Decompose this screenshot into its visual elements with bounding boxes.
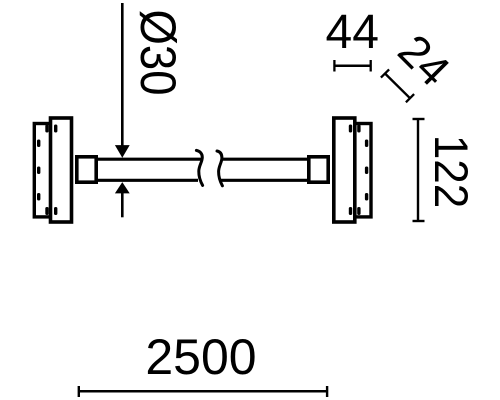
- tube left segment top line: [96, 158, 201, 161]
- left bracket front plate slot bottom: [54, 207, 57, 215]
- tube right segment bottom line: [220, 179, 308, 182]
- svg-text:Ø30: Ø30: [129, 10, 184, 96]
- dimension Ø30 down arrow: [115, 145, 130, 158]
- left bracket back plate slot bottom: [37, 193, 40, 201]
- break line right: [217, 151, 222, 186]
- right bracket front plate slot bottom: [349, 207, 352, 215]
- dimension Ø30 leader line (bottom): [121, 192, 124, 217]
- svg-text:2500: 2500: [145, 329, 256, 385]
- tube left segment bottom line: [96, 179, 198, 182]
- left bracket front plate slot top: [54, 125, 57, 133]
- break line left: [196, 150, 202, 185]
- left bracket back plate slot middle: [37, 167, 40, 175]
- right bracket front plate slot top: [349, 125, 352, 133]
- right bracket back plate slot top: [365, 140, 368, 148]
- dimension 2500 right tick: [326, 386, 328, 397]
- dimension 24 line (diagonal): [385, 74, 410, 99]
- dimension 24 lower tick: [406, 94, 414, 102]
- svg-text:122: 122: [425, 135, 478, 208]
- dimension 44 line: [334, 65, 370, 68]
- dimension 24 upper tick: [381, 69, 389, 77]
- dimension 122 line: [417, 119, 419, 221]
- right bracket back plate seam slot top: [357, 125, 360, 133]
- right bracket back plate seam slot bottom: [357, 207, 360, 215]
- left bracket back plate: [34, 124, 54, 217]
- dimension 2500 left tick: [78, 386, 80, 397]
- left bracket back plate seam slot top: [45, 125, 48, 133]
- right bracket back plate slot middle: [365, 167, 368, 175]
- tube right segment top line: [222, 158, 309, 161]
- dimension Ø30 leader line (top): [121, 3, 124, 148]
- dimension Ø30 up arrow: [115, 182, 130, 193]
- left bracket front plate: [51, 118, 72, 222]
- right bracket back plate: [351, 124, 371, 217]
- dimension 44 left tick: [333, 60, 335, 72]
- right bracket back plate slot bottom: [365, 193, 368, 201]
- right end cap connector: [309, 157, 328, 182]
- dimension 44 right tick: [370, 60, 372, 72]
- left bracket back plate seam slot bottom: [45, 207, 48, 215]
- svg-text:44: 44: [326, 6, 379, 59]
- dimension 122 top tick: [413, 118, 425, 120]
- dimension 2500 line: [79, 390, 327, 393]
- right bracket front plate: [334, 118, 355, 222]
- left bracket back plate slot top: [37, 140, 40, 148]
- left end cap connector: [77, 157, 96, 182]
- dimension 122 bottom tick: [413, 220, 425, 222]
